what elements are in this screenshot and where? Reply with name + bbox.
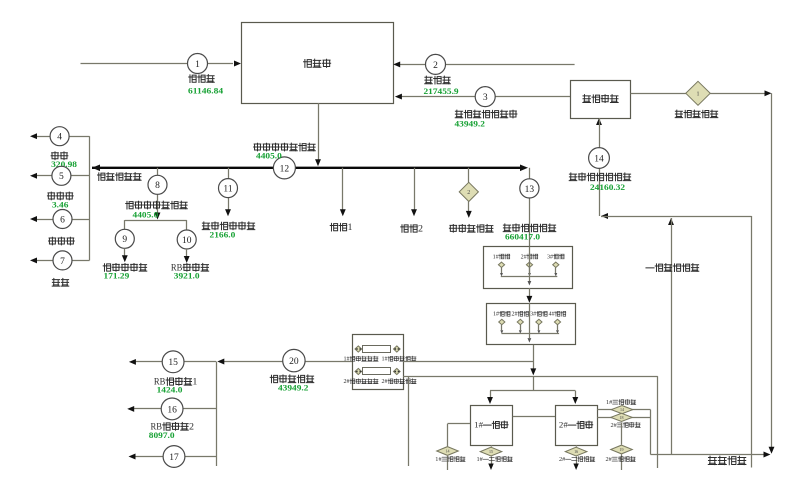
svg-text:1: 1	[348, 222, 353, 232]
svg-text:1#: 1#	[435, 457, 441, 463]
valve diamond 2: 反洗水总水	[468, 168, 470, 183]
svg-text:8: 8	[155, 181, 160, 191]
node 7 污水	[72, 260, 90, 262]
wire: drop at x408.5	[408, 376, 410, 466]
svg-text:3#: 3#	[530, 312, 536, 318]
filter1 center feed	[529, 247, 531, 277]
svg-text:6: 6	[60, 215, 65, 225]
svg-text:20: 20	[289, 357, 299, 367]
node 8: 车间自来水总水	[157, 168, 159, 176]
svg-text:3.46: 3.46	[52, 200, 68, 210]
wire: right drain x751.6	[751, 216, 753, 468]
svg-text:1#: 1#	[493, 254, 499, 260]
svg-text:1424.0: 1424.0	[157, 385, 183, 395]
wire: softener2 outlet line	[403, 376, 658, 378]
tank: 原水池 raw water pool	[242, 23, 394, 104]
wire 消防1	[342, 168, 344, 210]
svg-text:7: 7	[60, 257, 65, 267]
wire: M1 left product	[448, 423, 471, 425]
svg-text:3921.0: 3921.0	[174, 271, 200, 281]
svg-text:1#: 1#	[477, 457, 483, 463]
node 12 on bus	[273, 157, 295, 179]
valve: 1#一二级产水	[491, 445, 493, 447]
svg-text:2#: 2#	[344, 379, 350, 385]
wire: 1#三级浓水	[597, 409, 650, 411]
svg-text:17: 17	[169, 453, 179, 463]
svg-text:2: 2	[433, 61, 438, 71]
wire 消防2	[414, 168, 416, 210]
unit: 1#一级膜	[471, 406, 513, 446]
softener 2 vessel	[363, 368, 391, 375]
unit: softener box	[353, 335, 404, 390]
svg-text:1: 1	[697, 91, 700, 97]
node 2: 北原水 flow meter	[426, 54, 446, 74]
wire: UF drain to right edge	[631, 93, 687, 95]
node 11 锅炉房自来水	[228, 168, 230, 179]
node 1: 南原水 flow meter	[188, 54, 208, 74]
svg-text:2#: 2#	[521, 254, 527, 260]
svg-text:4405.0: 4405.0	[256, 150, 282, 160]
svg-text:15: 15	[168, 358, 178, 368]
wire: softened water line	[305, 361, 352, 363]
node 14: 水处理总回收水	[596, 118, 602, 125]
valve: 2#一二级产水	[576, 445, 578, 447]
bus: 厂区自来水总水 main line	[92, 167, 522, 169]
svg-text:2: 2	[189, 421, 194, 431]
wire: north raw water inlet	[446, 64, 575, 66]
wire: drop at x657.7	[657, 376, 659, 468]
valve diamond 1: 超滤水排水	[686, 81, 710, 105]
unit: sand filter box	[484, 247, 573, 289]
svg-text:1#: 1#	[474, 420, 484, 430]
svg-text:16: 16	[574, 449, 578, 454]
node 10 RB自来水	[177, 230, 196, 249]
svg-text:19: 19	[620, 447, 624, 452]
svg-text:9: 9	[122, 235, 127, 245]
svg-text:2#: 2#	[559, 457, 565, 463]
svg-text:2166.0: 2166.0	[210, 230, 236, 240]
svg-text:10: 10	[182, 236, 192, 246]
wire: filter2 outlet down	[533, 345, 535, 370]
wire: recovery header y216	[601, 213, 608, 219]
svg-text:61146.84: 61146.84	[188, 85, 224, 95]
unit: 2#一级膜	[556, 406, 598, 446]
svg-text:5: 5	[59, 172, 64, 182]
svg-text:12: 12	[280, 164, 290, 174]
svg-text:4405.0: 4405.0	[133, 210, 159, 220]
node 17	[185, 456, 216, 458]
svg-text:16: 16	[167, 405, 177, 415]
valve: 1#三级产水	[437, 447, 459, 456]
svg-text:660417.0: 660417.0	[505, 232, 540, 242]
svg-text:18: 18	[620, 415, 624, 420]
svg-text:13: 13	[525, 185, 535, 195]
wire: right drain x650.5	[650, 410, 652, 455]
node 20 软化水总水	[283, 349, 305, 371]
svg-text:24160.32: 24160.32	[590, 182, 625, 192]
svg-text:14: 14	[620, 407, 624, 412]
svg-text:2#: 2#	[512, 312, 518, 318]
svg-text:11: 11	[223, 185, 232, 195]
collector in filter box 2	[501, 333, 559, 335]
node 6 办公室	[72, 219, 90, 221]
svg-text:2#: 2#	[559, 420, 569, 430]
svg-text:43949.2: 43949.2	[455, 119, 485, 129]
svg-text:1#: 1#	[493, 312, 499, 318]
svg-text:3#: 3#	[547, 254, 553, 260]
svg-text:14: 14	[446, 448, 450, 453]
wire: split to 9 and 10	[125, 220, 187, 222]
node 5 物流办	[71, 175, 90, 177]
wire: pool down to bus	[318, 103, 320, 160]
filter2 center feed	[529, 303, 531, 334]
wire: 2#三级浓水	[597, 417, 650, 419]
wire: membrane feed header	[490, 390, 575, 392]
svg-text:2: 2	[418, 223, 423, 233]
svg-text:2#: 2#	[606, 457, 612, 463]
collector in filter box 1	[501, 276, 558, 278]
svg-text:2#: 2#	[611, 423, 617, 429]
wire: south raw water inlet	[81, 63, 234, 65]
wire: M1-M2 connector	[513, 416, 555, 418]
node 15 RB软化水1	[184, 361, 216, 363]
node 4 食堂	[69, 136, 89, 138]
svg-text:43949.2: 43949.2	[278, 382, 308, 392]
svg-text:171.29: 171.29	[104, 271, 130, 281]
svg-text:217455.9: 217455.9	[424, 86, 459, 96]
wire: non-production header	[89, 136, 91, 260]
svg-text:8097.0: 8097.0	[149, 430, 175, 440]
svg-text:1#: 1#	[606, 400, 612, 406]
svg-text:15: 15	[489, 449, 493, 454]
svg-text:2: 2	[467, 190, 470, 196]
wire to filter box 2	[529, 288, 531, 297]
svg-text:1: 1	[195, 60, 200, 70]
svg-text:4: 4	[57, 133, 62, 143]
svg-text:1#: 1#	[382, 357, 388, 363]
header for RB soft water x216	[216, 362, 218, 467]
node 3: 超滤水回原水池 flow meter	[475, 87, 495, 107]
wire: 一级水回收水 riser	[668, 218, 674, 225]
softener 1 vessel	[363, 346, 391, 353]
svg-text:1: 1	[192, 377, 197, 387]
svg-text:4#: 4#	[549, 312, 555, 318]
wire: 污水排放	[651, 454, 765, 456]
wire: UF return to pool	[495, 96, 571, 98]
wire: softener feed from filters	[403, 361, 533, 363]
node 13: 水处理总进水	[529, 168, 531, 179]
svg-text:3: 3	[483, 93, 488, 103]
wire: right edge drain down	[771, 93, 773, 447]
unit: carbon filter box	[487, 304, 576, 345]
node 9 大桶自来水	[115, 229, 134, 248]
svg-text:14: 14	[594, 154, 604, 164]
unit: 超滤系统 UF system	[571, 81, 631, 119]
node 16 RB软化水2	[183, 408, 216, 410]
svg-text:2#: 2#	[382, 379, 388, 385]
valve: 2#三级产水	[621, 422, 623, 444]
